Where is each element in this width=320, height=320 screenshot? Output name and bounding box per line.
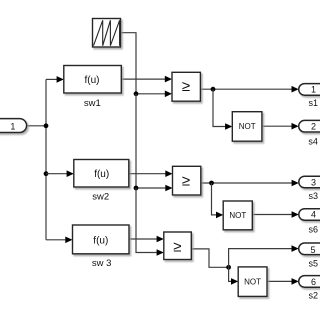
relational operator GE1 bbox=[172, 72, 200, 101]
wire: trunk to sw1 input bbox=[46, 78, 57, 80]
wire: trunk vertical bbox=[45, 79, 47, 239]
wire: GE1 output to out port 1 bbox=[200, 88, 291, 90]
wire: sw3 output to GE3 input1 bbox=[129, 238, 157, 240]
wire: branch up to out port 5 bbox=[229, 249, 292, 268]
output port 6 bbox=[299, 276, 320, 288]
wire: NOT2 output to out port 4 bbox=[252, 214, 292, 216]
wire: sw2 output to GE2 input1 bbox=[129, 173, 166, 175]
svg-text:4: 4 bbox=[311, 210, 316, 220]
wire: sw1 output to GE1 input1 bbox=[121, 78, 165, 80]
NOT block 2 bbox=[223, 201, 252, 230]
wire: trunk to sw2 input bbox=[46, 173, 67, 175]
svg-text:s5: s5 bbox=[309, 259, 319, 269]
svg-text:s6: s6 bbox=[309, 225, 319, 235]
wire: sawtooth trunk to GE2 input2 bbox=[136, 94, 166, 188]
junction dot: sawtooth line at GE2 level bbox=[134, 186, 139, 191]
wire: input port 1 to trunk bbox=[27, 125, 46, 127]
wire: GE3 output jog down bbox=[191, 249, 228, 267]
Fcn block sw3 bbox=[73, 225, 130, 254]
output port 4 bbox=[299, 209, 320, 221]
svg-text:5: 5 bbox=[310, 245, 315, 255]
output port 2 bbox=[299, 120, 320, 132]
repeating sequence (sawtooth) block bbox=[93, 19, 121, 48]
svg-text:≥: ≥ bbox=[182, 78, 190, 95]
svg-text:NOT: NOT bbox=[229, 211, 246, 220]
relational operator GE3 bbox=[164, 232, 192, 260]
svg-text:s1: s1 bbox=[309, 98, 319, 108]
svg-text:sw 3: sw 3 bbox=[92, 258, 112, 269]
wire: trunk to sw3 input bbox=[46, 239, 66, 241]
svg-text:sw1: sw1 bbox=[84, 98, 101, 109]
svg-text:s4: s4 bbox=[308, 137, 318, 147]
Fcn block sw1 bbox=[64, 66, 122, 94]
svg-text:2: 2 bbox=[311, 122, 316, 132]
NOT block 3 bbox=[238, 267, 267, 297]
svg-text:f(u): f(u) bbox=[93, 235, 108, 246]
svg-text:NOT: NOT bbox=[244, 278, 261, 287]
svg-text:s3: s3 bbox=[309, 191, 319, 201]
svg-text:f(u): f(u) bbox=[94, 169, 109, 180]
junction dot: GE2 output branch bbox=[209, 181, 214, 186]
svg-text:s2: s2 bbox=[309, 290, 319, 300]
wire: branch down to NOT1 bbox=[213, 89, 225, 126]
Fcn block sw2 bbox=[74, 160, 129, 188]
svg-text:≥: ≥ bbox=[173, 239, 181, 256]
wire: sawtooth output down to GE1 input2 bbox=[121, 33, 166, 94]
svg-text:3: 3 bbox=[311, 177, 316, 187]
svg-text:1: 1 bbox=[10, 121, 15, 131]
junction dot: sawtooth line at GE1 level bbox=[134, 91, 139, 96]
wire: NOT3 output to out port 6 bbox=[267, 280, 292, 282]
junction dot: GE1 output branch bbox=[211, 87, 216, 92]
wire: branch down to NOT3 bbox=[229, 267, 232, 281]
NOT block 1 bbox=[232, 112, 262, 142]
output port 5 bbox=[299, 243, 320, 255]
output port 1 bbox=[299, 84, 320, 96]
output port 3 bbox=[299, 176, 320, 188]
svg-text:f(u): f(u) bbox=[85, 75, 100, 86]
svg-text:1: 1 bbox=[311, 84, 316, 94]
wire: branch down to NOT2 bbox=[212, 183, 217, 215]
input port 1 bbox=[0, 119, 27, 133]
svg-text:sw2: sw2 bbox=[92, 192, 109, 203]
wire: GE2 output to out port 3 bbox=[201, 182, 292, 184]
wire: NOT1 output to out port 2 bbox=[262, 125, 292, 127]
svg-text:6: 6 bbox=[311, 277, 316, 287]
junction dot: trunk at sw2 level bbox=[44, 171, 49, 176]
wire: sawtooth trunk to GE3 input2 bbox=[136, 188, 157, 253]
svg-text:≥: ≥ bbox=[182, 173, 190, 190]
junction dot: trunk at input level bbox=[44, 123, 49, 128]
svg-text:NOT: NOT bbox=[239, 122, 256, 131]
junction dot: GE3 output branch bbox=[226, 265, 231, 270]
relational operator GE2 bbox=[173, 166, 201, 195]
